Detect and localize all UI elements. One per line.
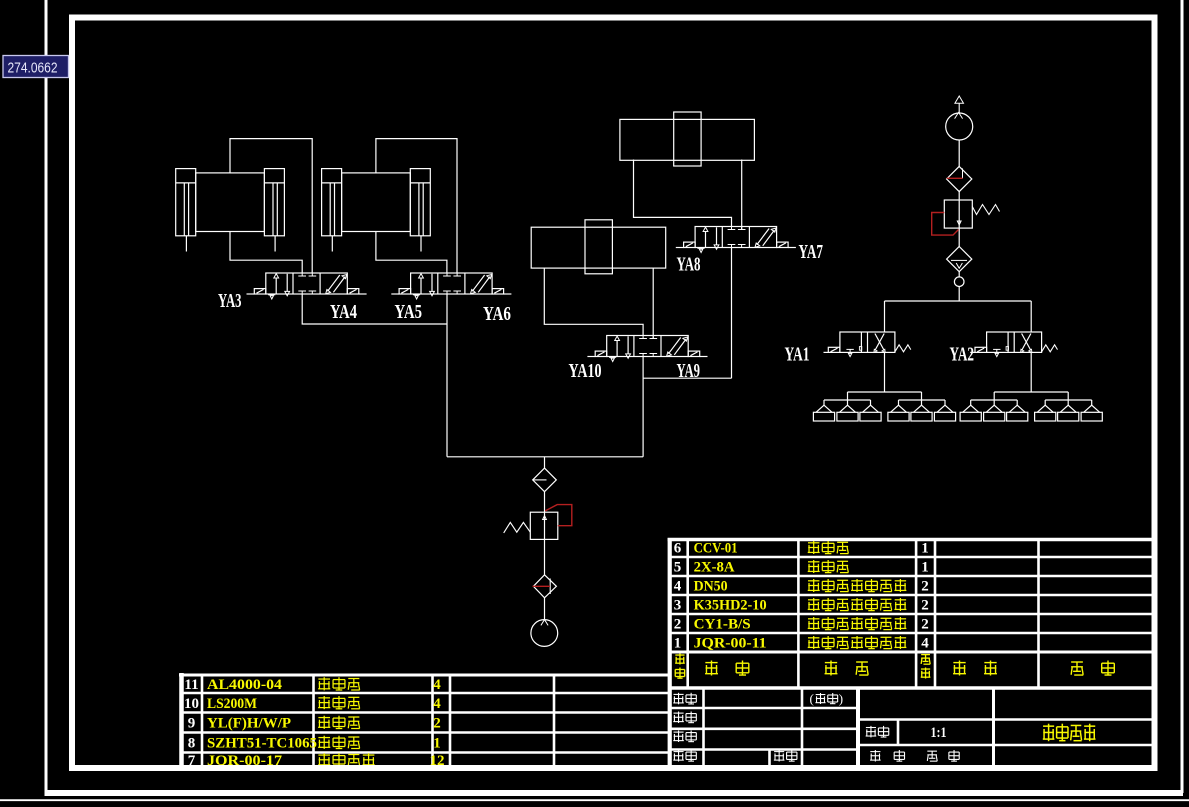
svg-text:5: 5 [674,560,682,576]
svg-text:LS200M: LS200M [207,696,257,712]
svg-text:6: 6 [674,541,682,557]
svg-text:K35HD2-10: K35HD2-10 [694,598,767,614]
svg-text:2: 2 [674,617,682,633]
check valve CCV-01 (diamond) [533,468,557,492]
svg-text:(: ( [810,691,814,706]
wire manifold to valve YA2 [1030,301,1032,332]
suction cup group 1 (JQR-00-17 x6) [813,392,955,421]
svg-text:YA7: YA7 [799,241,824,263]
vacuum check valve (diamond) [947,247,972,272]
svg-text:8: 8 [188,736,196,752]
svg-text:4: 4 [433,696,441,712]
air supply bus line [447,456,643,458]
svg-text:YA4: YA4 [330,301,357,323]
wire cylinder D right port to valve YA10/YA9 [652,268,654,338]
svg-text:9: 9 [188,716,196,732]
pressure regulator LS200M (square with spring + red pilot) [530,512,558,539]
svg-text:YL(F)H/W/P: YL(F)H/W/P [207,716,291,732]
wire unit2 bottom to valve YA5/YA6 port A [376,232,447,274]
wire YA8/YA7 supply drop [731,248,733,379]
svg-text:YA6: YA6 [483,303,511,325]
title block borders [668,707,858,710]
outer sheet border right [1181,0,1184,793]
svg-text:1: 1 [921,541,929,557]
wire cylinder C left port to valve YA8/YA7 [634,160,732,227]
wire YA1 to suction cup group 1 [884,352,886,392]
wire unit1 top to valve YA3/YA4 port B [230,139,312,273]
svg-text:4: 4 [674,579,682,595]
valve YA2 (DN50 3/2 solenoid valve) [970,332,1057,357]
air filter (diamond with red seat) [533,575,556,598]
air compressor SZHT51-TC1065 (circle) [531,620,558,647]
bottom screen edge line [0,799,1189,801]
junction ball [958,272,960,277]
red pilot line of vacuum regulator [932,213,959,236]
vacuum pump 2X-8A (circle) [946,113,973,140]
red seat line [947,177,963,179]
wire unit2 top to valve YA5/YA6 port B [376,139,457,273]
svg-text:JQR-00-11: JQR-00-11 [694,636,767,652]
valve YA1 (DN50 3/2 solenoid valve) [824,332,911,357]
svg-text:1: 1 [433,736,441,752]
parts table header texts [675,654,684,656]
wire cylinder D left port to valve YA10/YA9 [544,268,643,335]
rodless cylinder C (CY1-B/S) [620,112,755,166]
suction cup group 2 (JQR-00-17 x6) [960,392,1102,421]
svg-text:11: 11 [184,677,198,693]
svg-text:10: 10 [184,696,199,712]
svg-text:SZHT51-TC1065: SZHT51-TC1065 [207,736,317,752]
vacuum regulator LS200M (square with spring + red pilot) [944,200,972,228]
vacuum manifold line [885,300,1032,302]
svg-text:YA10: YA10 [569,360,602,382]
outer sheet border bottom [45,790,1184,796]
svg-text:4: 4 [921,636,929,652]
svg-text:274.0662: 274.0662 [8,61,58,77]
wire YA10/YA9 supply riser to air bus [642,357,644,457]
svg-text:YA1: YA1 [785,344,810,366]
wire filter to compressor [544,598,546,620]
svg-text:3: 3 [674,598,682,614]
svg-text:YA5: YA5 [395,301,423,323]
svg-text:CCV-01: CCV-01 [694,541,738,557]
wire junction YA10/YA9 to YA8/YA7 supply [643,377,731,379]
red pilot line of regulator [545,505,572,526]
red seat line of filter [533,585,551,587]
inner drawing frame bottom edge [69,765,1158,771]
CAD coordinate tooltip [3,56,69,78]
cylinder unit 1 (JQR-00-11 pair with plate) [176,169,285,252]
wire check valve to vacuum regulator [958,192,960,247]
svg-text:): ) [839,691,843,706]
vacuum exhaust arrow [958,104,960,114]
wire bus to check valve [544,457,546,468]
svg-text:AL4000-04: AL4000-04 [207,677,283,693]
valve YA5/YA6 (K35HD2-10 5/3 solenoid valve) [391,273,511,299]
drawing title (pneumatic circuit) [1043,725,1054,727]
svg-text:2: 2 [921,579,929,595]
valve YA8/YA7 (K35HD2-10 5/3 solenoid valve) [676,227,796,253]
cylinder unit 2 (JQR-00-11 pair with plate) [322,169,431,252]
svg-text:2: 2 [921,617,929,633]
valve YA3/YA4 (K35HD2-10 5/3 solenoid valve) [246,273,366,299]
svg-text:DN50: DN50 [694,579,728,595]
svg-text:YA8: YA8 [677,254,701,276]
svg-text:2: 2 [921,598,929,614]
wire junction to vacuum manifold [958,287,960,302]
wire cylinder C right port to valve YA8/YA7 [741,160,743,230]
svg-text:YA2: YA2 [950,344,975,366]
svg-text:2: 2 [433,716,441,732]
wire manifold to valve YA1 [884,301,886,332]
outer sheet border left [45,0,48,793]
svg-text:CY1-B/S: CY1-B/S [694,617,751,633]
wire YA2 to suction cup group 2 [1030,352,1032,392]
title block labels [673,693,683,695]
valve YA10/YA9 (K35HD2-10 5/3 solenoid valve) [587,336,707,362]
wire pump to check valve [958,140,960,166]
svg-text:YA3: YA3 [218,290,242,312]
wire YA5/YA6 supply riser to air bus [446,294,448,457]
rodless cylinder D (CY1-B/S) [531,220,666,274]
svg-text:4: 4 [433,677,441,693]
svg-text:1: 1 [921,560,929,576]
wire YA3/YA4 supply to manifold [302,294,447,324]
check valve CCV-01 top (diamond with red seat) [947,166,972,191]
left parts table borders [179,673,184,768]
svg-text:1:1: 1:1 [931,725,947,741]
wire check valve to pressure regulator [544,492,546,575]
wire unit1 bottom to valve YA3/YA4 port A [230,232,302,274]
svg-text:1: 1 [674,636,682,652]
svg-text:2X-8A: 2X-8A [694,560,735,576]
right parts table borders [668,538,672,768]
